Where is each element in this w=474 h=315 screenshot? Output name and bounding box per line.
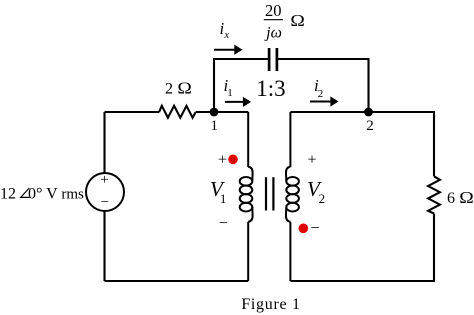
node 1 junction dot — [210, 108, 219, 117]
wire: primary top segment left of resistor — [105, 111, 160, 113]
svg-text:−: − — [219, 215, 228, 232]
wire: right edge bottom and secondary bottom — [290, 214, 434, 281]
wire: primary bottom — [105, 280, 249, 282]
svg-text:1: 1 — [220, 191, 227, 206]
svg-text:−: − — [101, 194, 109, 210]
current arrow i1 — [225, 101, 244, 103]
capacitor C1 plates — [268, 48, 271, 71]
resistor R2 6ohm zigzag — [428, 176, 440, 213]
current arrow ix — [214, 49, 235, 51]
current arrow i2 — [310, 101, 332, 103]
svg-text:jω: jω — [264, 24, 282, 41]
wire: left vertical of primary loop — [103, 112, 105, 281]
svg-text:−: − — [310, 220, 319, 237]
angle symbol — [21, 188, 30, 197]
resistor R1 2ohm zigzag — [159, 106, 196, 118]
wire: resistor to node 1 and on to left winding lead — [196, 111, 249, 113]
svg-text:+: + — [218, 152, 227, 169]
svg-text:2: 2 — [366, 118, 374, 134]
svg-text:Figure 1: Figure 1 — [241, 296, 300, 313]
svg-text:2: 2 — [165, 81, 173, 98]
svg-text:6: 6 — [447, 190, 455, 207]
svg-text:x: x — [224, 30, 230, 41]
secondary dot mark (red) — [299, 224, 309, 234]
svg-text:2: 2 — [318, 88, 324, 100]
svg-text:Ω: Ω — [459, 188, 473, 206]
svg-text:Ω: Ω — [290, 11, 304, 29]
svg-text:1: 1 — [211, 118, 219, 134]
svg-text:2: 2 — [319, 191, 326, 206]
wire: secondary top to node 2 and right edge — [290, 112, 434, 176]
transformer T1 core — [265, 177, 267, 210]
svg-text:+: + — [100, 172, 108, 188]
voltage source VS circle — [86, 173, 124, 211]
wire: capacitor branch right to node 2 — [278, 59, 369, 112]
svg-text:1:3: 1:3 — [256, 76, 285, 101]
node 2 junction dot — [364, 108, 373, 117]
svg-text:+: + — [307, 152, 316, 169]
svg-text:0° V rms: 0° V rms — [28, 186, 84, 203]
svg-text:12: 12 — [0, 186, 16, 203]
svg-text:20: 20 — [265, 1, 282, 20]
transformer T1 secondary winding — [286, 112, 299, 281]
svg-text:1: 1 — [227, 87, 233, 99]
wire: capacitor branch left vertical from node 1 — [214, 59, 268, 112]
svg-text:Ω: Ω — [177, 79, 191, 97]
transformer T1 primary winding — [240, 112, 253, 281]
primary dot mark (red) — [228, 155, 238, 165]
